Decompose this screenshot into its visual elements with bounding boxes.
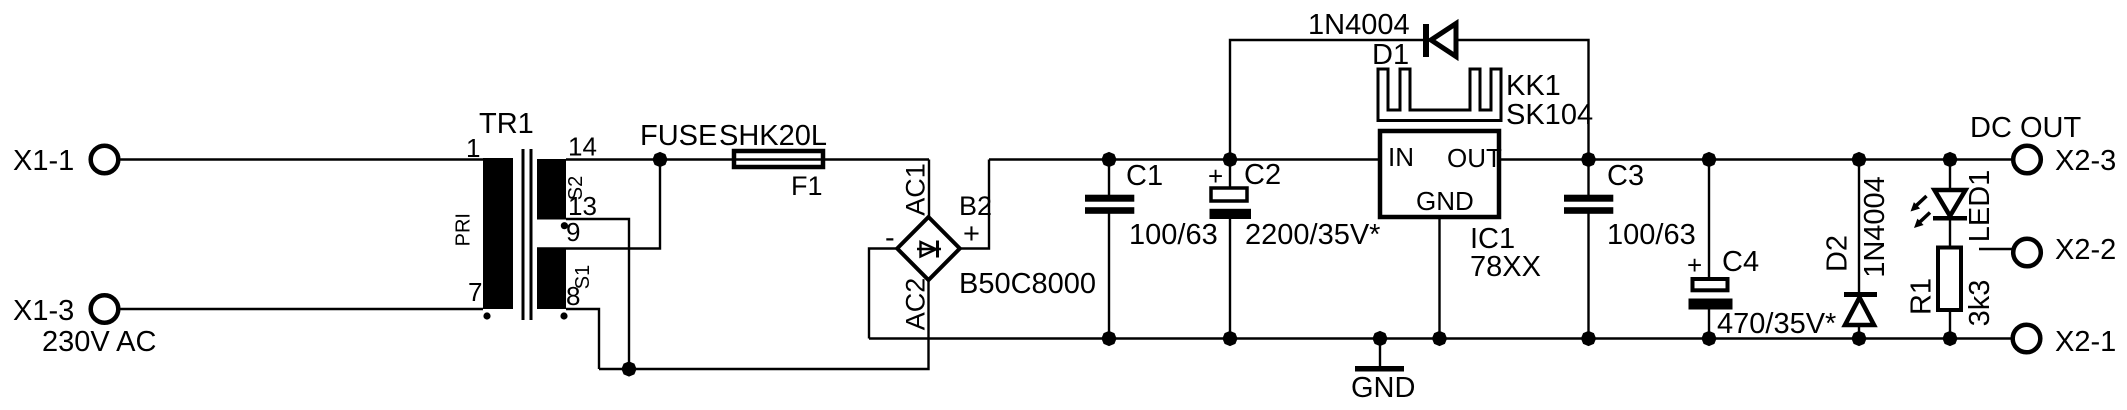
svg-text:1: 1 [466,133,480,163]
polarity dot primary [483,312,490,319]
svg-text:1N4004: 1N4004 [1308,9,1410,41]
core [522,149,525,320]
svg-text:470/35V*: 470/35V* [1717,308,1836,340]
primary winding [483,158,513,309]
svg-text:R1: R1 [1906,278,1938,315]
junction C3 top [1581,152,1596,167]
bridge rectifier B2 [885,163,1096,330]
svg-text:TR1: TR1 [479,108,534,140]
junction D2 bottom [1851,331,1866,346]
OUT rail [1499,158,2013,160]
diode D1 [1308,9,1456,71]
svg-text:14: 14 [568,132,597,162]
svg-text:X2-3: X2-3 [2055,145,2116,177]
junction LED top [1942,152,1957,167]
capacitor C3 [1564,160,1696,339]
wire pin13 down [566,219,629,369]
wire X2-2 stub [1979,248,2013,250]
junction bottom return [621,361,636,376]
svg-text:230V AC: 230V AC [42,326,156,358]
junction C3 bottom [1581,331,1596,346]
V+ rail [989,158,1380,160]
diode D1 loop wires [1230,40,1424,160]
wire pin14 to fuse [566,158,929,160]
terminal X2-3 [2013,145,2116,177]
capacitor C4 (electrolytic) [1687,160,1836,341]
wire fuse to bridge AC1 [928,160,930,218]
svg-text:GND: GND [1351,372,1415,404]
svg-text:DC OUT: DC OUT [1970,112,2081,144]
junction C1 top [1101,152,1116,167]
svg-text:+: + [1687,250,1702,280]
terminal X1-3 [13,295,118,327]
secondary winding S2 [537,159,566,220]
svg-text:2200/35V*: 2200/35V* [1245,219,1380,251]
capacitor C1 [1085,160,1218,339]
junction C4 bottom [1701,331,1716,346]
junction C4 top [1701,152,1716,167]
svg-text:D1: D1 [1372,39,1409,71]
svg-text:X2-2: X2-2 [2055,234,2116,266]
secondary winding S1 [537,248,566,310]
transformer TR1 [453,108,597,320]
resistor R1 [1906,248,1997,339]
terminal X1-1 [13,145,118,177]
svg-text:S2: S2 [565,176,587,200]
junction GND stub [1372,331,1387,346]
wire bridge minus to ground rail [869,249,897,339]
diode D2 [1822,160,1892,339]
svg-text:100/63: 100/63 [1129,219,1218,251]
wire X1-1 to TR1 pin1 [121,158,484,160]
svg-text:PRI: PRI [453,213,475,246]
junction C2 bottom [1222,331,1237,346]
wire X1-3 to TR1 pin7 [121,308,484,310]
svg-text:AC2: AC2 [901,278,931,331]
fuse F1 [640,120,827,201]
svg-text:OUT: OUT [1447,143,1502,173]
LED LED1 [1911,160,1997,248]
wire bridge plus to V+ rail [960,160,989,249]
svg-text:KK1: KK1 [1506,70,1561,102]
svg-text:100/63: 100/63 [1607,219,1696,251]
svg-text:AC1: AC1 [901,163,931,216]
svg-text:3k3: 3k3 [1964,280,1996,327]
svg-text:7: 7 [468,277,482,307]
terminal X2-2 [2013,234,2116,266]
heatsink KK1 [1378,69,1593,131]
svg-text:B50C8000: B50C8000 [959,268,1096,300]
polarity dot S2/9 [561,222,568,229]
junction D2 top [1851,152,1866,167]
regulator IC1 78XX [1380,131,1541,283]
svg-text:C3: C3 [1607,160,1644,192]
junction IC GND [1432,331,1447,346]
svg-text:X2-1: X2-1 [2055,326,2116,358]
terminal X2-1 [2013,325,2117,358]
wire bottom return to bridge AC2 [599,280,929,370]
svg-text:SHK20L: SHK20L [719,120,827,152]
wire IC GND pin [1438,219,1440,339]
svg-text:1N4004: 1N4004 [1859,176,1891,278]
svg-text:LED1: LED1 [1964,170,1996,243]
wire pin9 to junction [537,160,660,249]
junction C1 bottom [1101,331,1116,346]
svg-text:IN: IN [1388,142,1414,172]
svg-text:C4: C4 [1722,246,1759,278]
svg-text:D2: D2 [1822,235,1854,272]
svg-text:C1: C1 [1126,160,1163,192]
junction fuse-left [652,152,667,167]
svg-text:B2: B2 [959,191,992,221]
svg-text:SK104: SK104 [1506,99,1593,131]
polarity dot S1 [560,312,567,319]
svg-text:FUSE: FUSE [640,120,717,152]
svg-text:S1: S1 [572,265,594,289]
svg-text:F1: F1 [791,171,823,201]
svg-text:X1-1: X1-1 [13,145,74,177]
wire pin8 down [566,309,599,369]
svg-text:X1-3: X1-3 [13,295,74,327]
svg-text:78XX: 78XX [1470,251,1541,283]
junction R1 bottom [1942,331,1957,346]
svg-text:GND: GND [1416,186,1474,216]
svg-text:9: 9 [566,217,580,247]
capacitor C2 (electrolytic) [1208,159,1380,339]
svg-text:C2: C2 [1244,159,1281,191]
ground symbol GND [1351,339,1415,405]
svg-text:+: + [963,218,980,250]
junction C2 top [1222,152,1237,167]
ground rail [869,337,2013,339]
